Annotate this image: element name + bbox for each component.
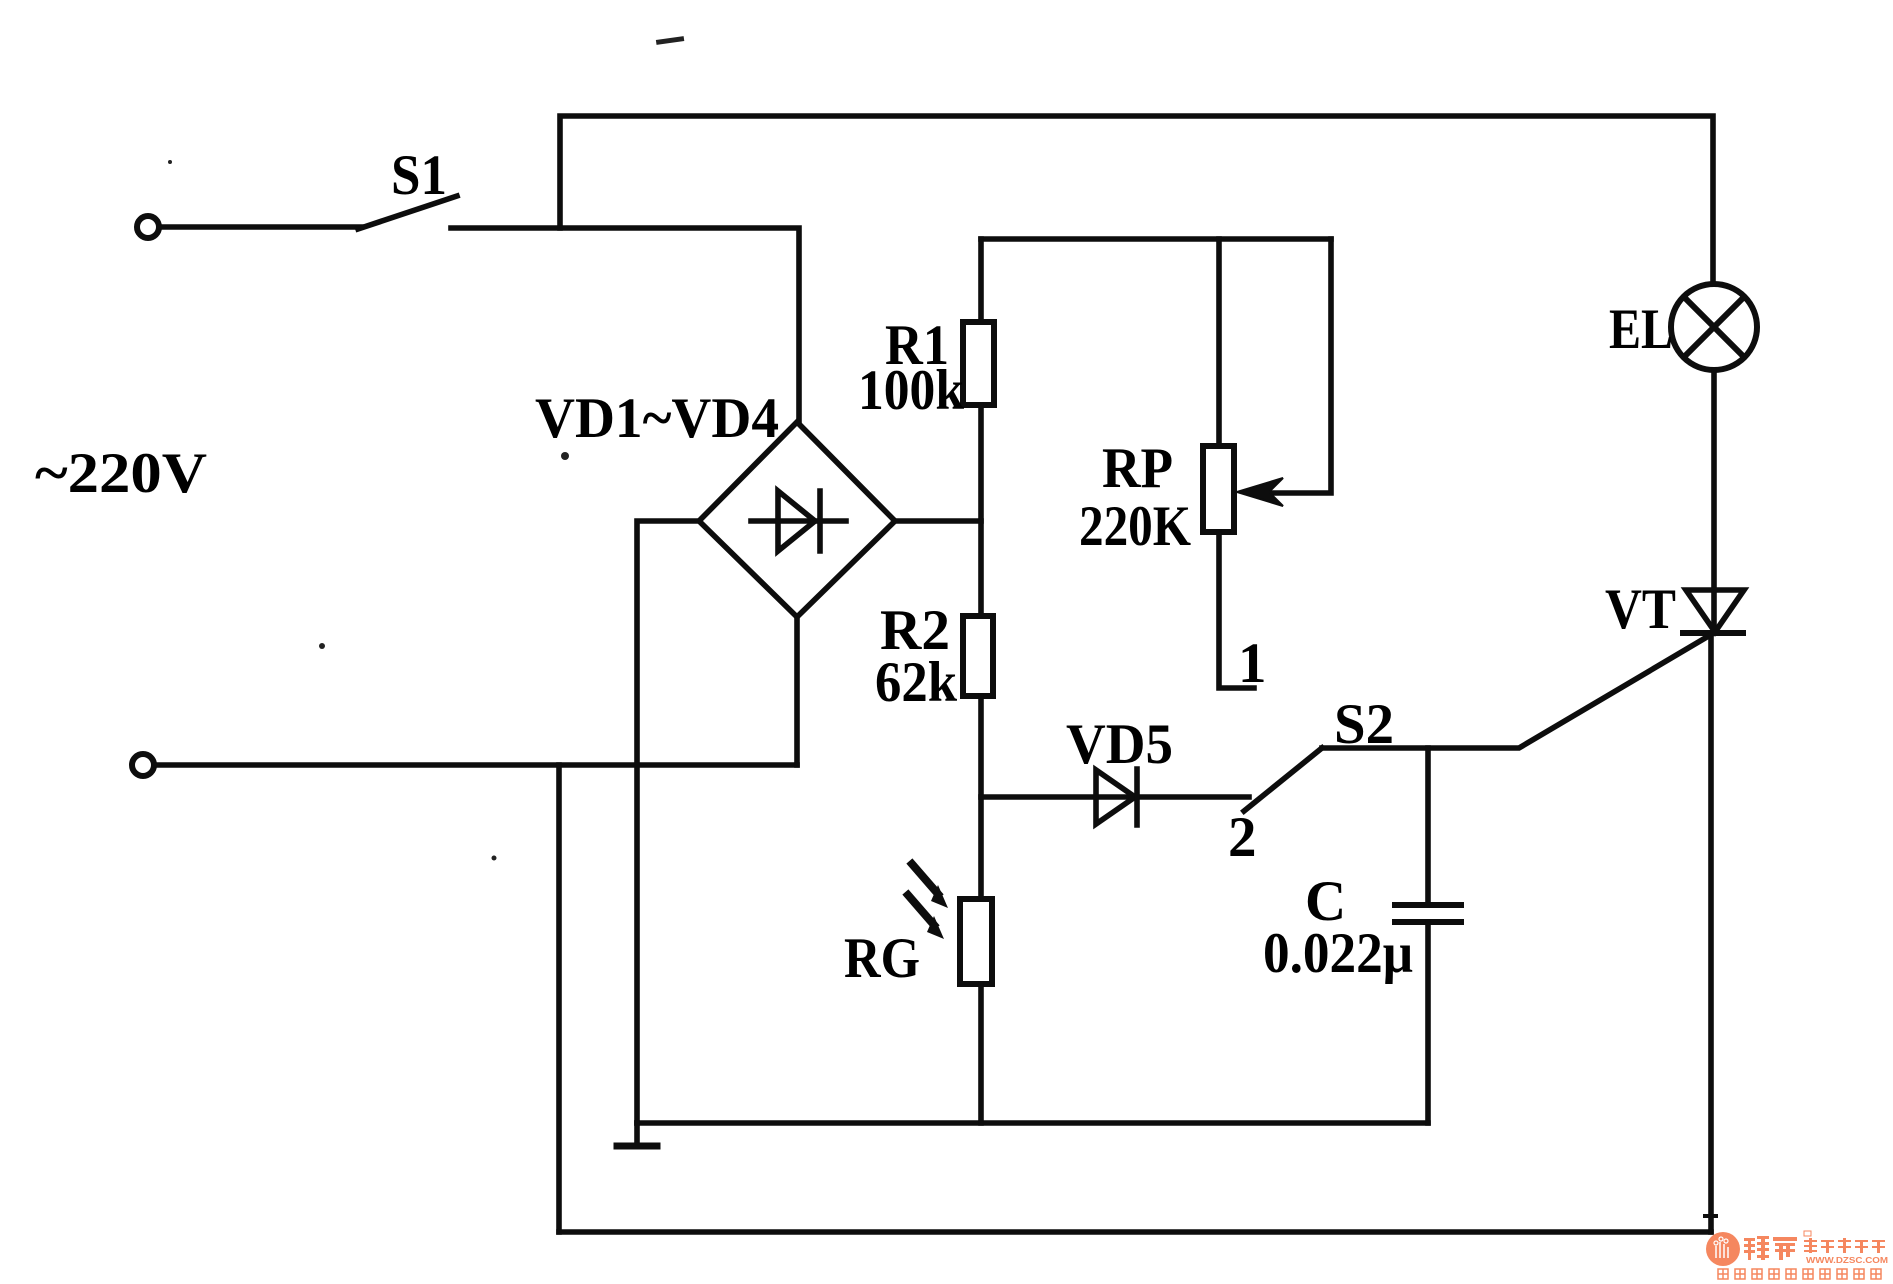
resistor R1 — [963, 322, 994, 405]
switch S1 blade — [358, 196, 457, 229]
RG light arrow 2 — [908, 895, 934, 925]
wire upper terminal to S1 — [159, 224, 361, 230]
watermark text dianzishichangwang — [1804, 1238, 1885, 1253]
wire EL to VT — [1711, 370, 1717, 632]
bridge inner diode line — [751, 518, 846, 524]
diode VD5 bar — [1134, 769, 1140, 825]
thyristor VT triangle — [1686, 590, 1744, 632]
bridge inner diode bar — [817, 491, 823, 551]
watermark logo circle — [1706, 1232, 1740, 1266]
wire left outer rail down — [556, 765, 562, 1232]
wire S2 to VT gate — [1322, 634, 1712, 748]
wire bridge bottom vertex down — [794, 617, 800, 765]
wire RP bottom to terminal 1 — [1219, 532, 1254, 688]
svg-text:2: 2 — [1228, 806, 1257, 869]
watermark TM mark — [1804, 1231, 1811, 1236]
tick mark right rail — [1705, 1214, 1716, 1218]
resistor R2 — [963, 616, 993, 696]
svg-text:VD5: VD5 — [1066, 713, 1173, 776]
wire bridge left vertex to ground rail — [637, 521, 699, 1123]
lamp EL circle — [1671, 284, 1757, 370]
ground bar — [617, 1143, 657, 1150]
switch S2 blade — [1244, 748, 1322, 811]
capacitor C bottom plate — [1395, 919, 1461, 925]
photoresistor RG — [960, 899, 992, 984]
terminal lower — [132, 754, 154, 776]
wire S2 to capacitor C — [1425, 748, 1431, 905]
RG light arrowhead 2 — [927, 916, 944, 939]
svg-text:VT: VT — [1605, 578, 1676, 641]
capacitor C top plate — [1395, 902, 1461, 908]
lamp EL cross — [1684, 297, 1744, 357]
wire RP wiper branch — [1262, 239, 1331, 493]
svg-text:RG: RG — [844, 927, 920, 990]
svg-text:62k: 62k — [875, 651, 957, 714]
wire main rail top to R1 — [978, 239, 984, 322]
bridge rectifier VD1~VD4 diamond — [699, 422, 895, 617]
svg-text:1: 1 — [1238, 632, 1267, 695]
wire S1 to bridge top — [451, 228, 799, 422]
watermark bottom row — [1718, 1269, 1881, 1279]
wire bottom rail — [559, 1229, 1711, 1235]
svg-text:WWW.DZSC.COM: WWW.DZSC.COM — [1806, 1255, 1888, 1265]
svg-text:S2: S2 — [1334, 693, 1394, 756]
wire lower terminal to bridge bottom — [154, 762, 797, 768]
speck marks — [168, 36, 684, 860]
wire C bottom to ground rail — [1425, 922, 1431, 1123]
wire right rail lower (VT cathode to bottom) — [1708, 633, 1714, 1232]
wire bridge right vertex to main rail — [895, 518, 981, 524]
potentiometer RP body — [1203, 446, 1234, 532]
thyristor VT cathode bar — [1683, 630, 1743, 636]
svg-text:220K: 220K — [1079, 495, 1191, 558]
terminal upper — [137, 216, 159, 238]
potentiometer RP top wire — [1216, 239, 1222, 447]
wire R1 to R2 — [978, 405, 984, 616]
svg-text:~220V: ~220V — [35, 442, 207, 505]
svg-text:0.022μ: 0.022μ — [1263, 922, 1413, 985]
watermark text weiku — [1744, 1236, 1797, 1260]
wire inner top rail — [981, 236, 1331, 242]
wire R2 to RG — [978, 696, 984, 899]
wire top rail — [560, 116, 1713, 284]
wire main rail R2 to VD5 junction — [981, 794, 1249, 800]
wire RG to ground rail — [978, 984, 984, 1123]
svg-text:100k: 100k — [858, 359, 964, 422]
wire ground rail — [637, 1120, 1428, 1126]
arrowhead RP wiper — [1237, 478, 1283, 506]
ground stub — [634, 1123, 640, 1144]
diode VD5 triangle — [1096, 770, 1135, 824]
svg-text:EL: EL — [1609, 298, 1673, 361]
svg-text:S1: S1 — [391, 144, 447, 207]
RG light arrow 1 — [912, 864, 938, 894]
svg-text:RP: RP — [1102, 437, 1173, 500]
RG light arrowhead 1 — [931, 885, 948, 908]
bridge inner diode triangle — [778, 491, 815, 551]
svg-text:VD1~VD4: VD1~VD4 — [535, 387, 779, 450]
